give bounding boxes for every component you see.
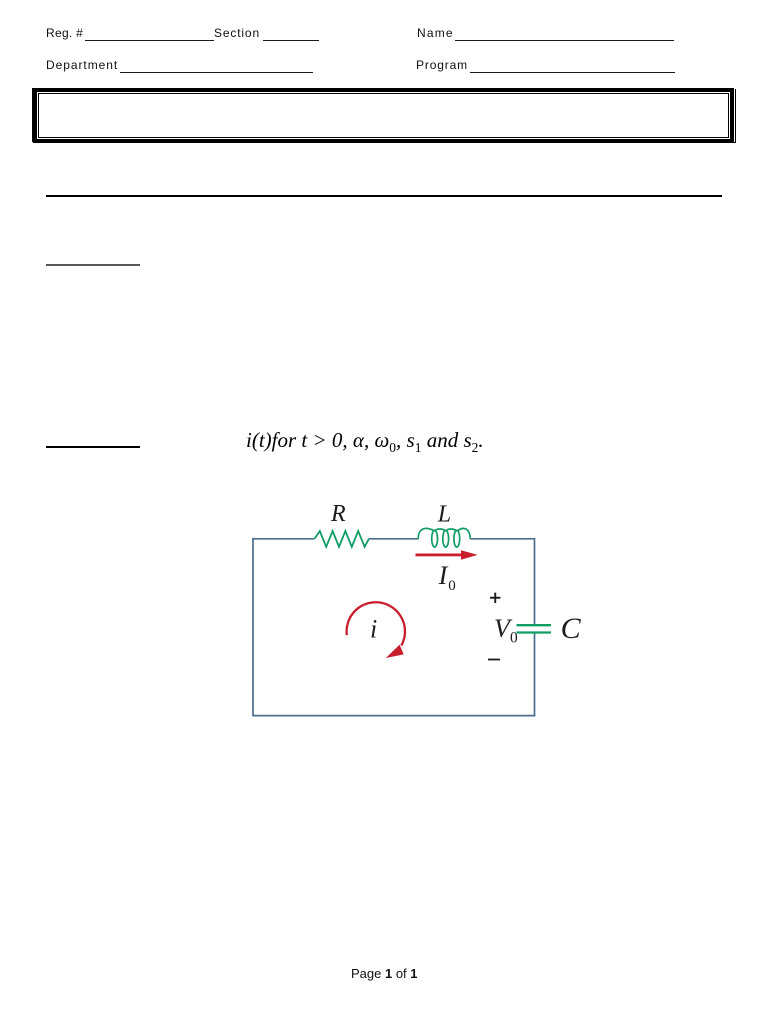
svg-text:C: C [561,612,582,645]
label + (capacitor polarity) [490,593,500,603]
svg-text:R: R [330,501,346,527]
wire: top middle segment (resistor to inductor) [369,538,419,540]
label L [437,502,451,528]
resistor R (zigzag) [315,531,370,547]
svg-text:i: i [370,614,377,643]
header row 2: Program label [416,58,468,72]
wire: left side [252,538,254,717]
wire: top right segment (inductor to top-right corner) [470,538,534,540]
svg-text:0: 0 [448,578,456,594]
header row 1: Reg/Section labels [46,26,83,40]
svg-text:0: 0 [510,629,518,646]
mesh current arrow i (circular arc) [347,602,405,645]
header row 1: Name label [417,26,454,40]
wire: right side lower (capacitor bottom plate to bottom-right corner) [534,633,536,717]
capacitor C (plates) [517,625,552,632]
label I0 [438,561,456,594]
full-width rule [46,195,722,197]
current arrow I0 [416,550,478,560]
wire: top side (left segment, node a to resistor) [252,538,314,540]
wire: bottom side [253,715,535,717]
header row 2: Department label [46,58,118,72]
label i [370,614,377,643]
short black blank line [46,446,140,449]
label minus (capacitor polarity) [488,659,500,661]
title box (double border) [32,88,734,142]
footer: Page 1 of 1 [351,966,418,981]
label R [330,501,346,527]
label V0 [494,614,518,646]
math expression [246,428,484,456]
inductor L (coil arches) [418,528,470,547]
label C [561,612,582,645]
svg-text:I: I [438,561,449,590]
wire: right side upper (corner to capacitor top plate) [534,538,536,625]
short gray blank line [46,264,140,266]
mesh arrowhead [386,645,404,658]
svg-text:L: L [437,502,451,528]
